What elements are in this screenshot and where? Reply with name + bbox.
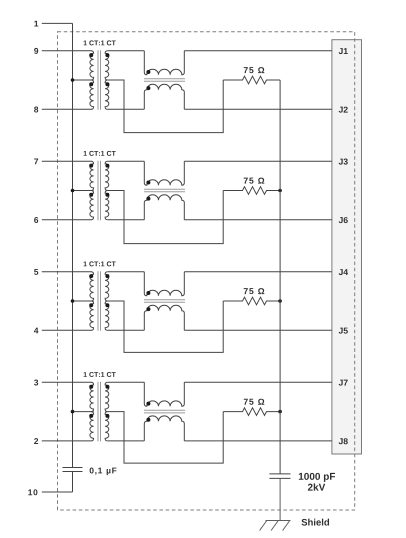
wire T2 secondary bottom to choke L2 bbox=[108, 219, 145, 221]
common-mode choke L3 top winding bbox=[144, 272, 184, 296]
transformer T2 secondary winding (coil a) bbox=[105, 161, 109, 190]
common-mode choke L2 core bbox=[144, 188, 185, 190]
pin J4 label bbox=[339, 269, 348, 275]
wire T4 primary centre tap to rail bbox=[73, 411, 94, 413]
junction: R4 on termination rail bbox=[278, 410, 282, 414]
transformer T4 primary winding (coil b) bbox=[90, 412, 94, 441]
transformer T1 secondary winding (coil b) bbox=[105, 80, 109, 109]
capacitor C2 1000 pF 2kV bbox=[269, 473, 290, 475]
transformer T1 label 1 CT:1 CT bbox=[84, 40, 116, 45]
resistor R4 75 ohm bbox=[223, 408, 280, 416]
wire choke L4 to J8 bbox=[184, 440, 332, 442]
transformer T1 core bbox=[97, 50, 99, 110]
transformer T4 phase dots bbox=[89, 385, 93, 389]
transformer T2 core bbox=[97, 161, 99, 221]
pin J6 label bbox=[339, 217, 348, 223]
wire T1 secondary bottom to choke L1 bbox=[108, 108, 145, 110]
choke L4 phase dots bbox=[146, 402, 150, 406]
wire choke L1 to J2 bbox=[184, 108, 332, 110]
transformer T3 secondary winding (coil b) bbox=[105, 301, 109, 330]
junction: T3 centre tap on rail bbox=[71, 299, 75, 303]
pin 3 label bbox=[34, 380, 38, 386]
shield boundary (dashed) bbox=[58, 32, 355, 510]
label 1000 pF bbox=[299, 473, 335, 482]
wire choke L3 to J4 bbox=[184, 271, 332, 273]
wire T3 secondary top to choke L3 bbox=[108, 271, 145, 273]
wire T2 secondary centre tap return to R2 bbox=[108, 191, 224, 244]
common-mode choke L4 bottom winding bbox=[144, 416, 184, 441]
pin 2 label bbox=[34, 438, 38, 444]
pin J7 label bbox=[339, 380, 348, 386]
chassis ground (shield) bbox=[266, 520, 291, 522]
wire T4 secondary top to choke L4 bbox=[108, 381, 145, 383]
wire T4 secondary bottom to choke L4 bbox=[108, 440, 145, 442]
pin 5 label bbox=[34, 269, 38, 275]
wire T1 secondary top to choke L1 bbox=[108, 50, 145, 52]
pin 9 label bbox=[34, 48, 38, 54]
pin J3 label bbox=[339, 159, 348, 165]
wire pin 5 to T3 primary top bbox=[42, 271, 92, 273]
wire choke L2 to J6 bbox=[184, 219, 332, 221]
wire pin 10 bbox=[42, 491, 73, 493]
label 75 ohm (R4) bbox=[244, 399, 265, 405]
transformer T3 secondary winding (coil a) bbox=[105, 272, 109, 301]
common-mode choke L1 top winding bbox=[144, 51, 184, 75]
wire T4 secondary centre tap return to R4 bbox=[108, 412, 224, 464]
wire pin 9 to T1 primary top bbox=[42, 50, 92, 52]
label 2kV bbox=[308, 483, 325, 490]
common-mode choke L4 top winding bbox=[144, 382, 184, 406]
junction: T2 centre tap on rail bbox=[71, 189, 75, 193]
wire T2 primary centre tap to rail bbox=[73, 190, 94, 192]
pin J2 label bbox=[339, 107, 348, 113]
transformer T4 label 1 CT:1 CT bbox=[84, 372, 116, 377]
transformer T2 secondary winding (coil b) bbox=[105, 191, 109, 220]
wire T3 secondary centre tap return to R3 bbox=[108, 301, 224, 352]
wire pin 8 to T1 primary bottom bbox=[42, 108, 92, 110]
connector box J1-J8 bbox=[332, 40, 362, 454]
resistor R3 75 ohm bbox=[223, 297, 280, 305]
pin J1 label bbox=[339, 48, 348, 54]
junction: T1 centre tap on rail bbox=[71, 78, 75, 82]
transformer T2 primary winding (coil a) bbox=[90, 161, 94, 190]
wire pin 1 bbox=[42, 22, 73, 24]
junction: R3 on termination rail bbox=[278, 299, 282, 303]
wire choke L1 to J1 bbox=[184, 50, 332, 52]
wire pin 6 to T2 primary bottom bbox=[42, 219, 92, 221]
transformer T3 primary winding (coil a) bbox=[90, 272, 94, 301]
transformer T2 phase dots bbox=[89, 164, 93, 168]
label 75 ohm (R2) bbox=[244, 178, 265, 184]
common-mode choke L1 bottom winding bbox=[144, 84, 184, 109]
wire T3 secondary bottom to choke L3 bbox=[108, 329, 145, 331]
label 75 ohm (R3) bbox=[244, 288, 265, 294]
transformer T4 core bbox=[97, 382, 99, 442]
junction: T4 centre tap on rail bbox=[71, 410, 75, 414]
common-mode choke L3 core bbox=[144, 299, 185, 301]
transformer T3 core bbox=[97, 271, 99, 331]
wire pin 4 to T3 primary bottom bbox=[42, 329, 92, 331]
pin 4 label bbox=[34, 328, 38, 334]
transformer T3 phase dots bbox=[89, 274, 93, 278]
resistor R1 75 ohm bbox=[223, 76, 280, 84]
choke L1 phase dots bbox=[146, 70, 150, 74]
label Shield bbox=[301, 519, 329, 526]
capacitor C1 0,1 uF bbox=[63, 467, 83, 469]
common-mode choke L1 core bbox=[144, 78, 185, 80]
centre-tap rail (pin1/pin10 net) bbox=[72, 23, 74, 467]
transformer T1 phase dots bbox=[89, 53, 93, 57]
wire pin 3 to T4 primary top bbox=[42, 381, 92, 383]
pin J5 label bbox=[339, 328, 348, 334]
label 0,1 uF bbox=[90, 468, 117, 476]
transformer T3 primary winding (coil b) bbox=[90, 301, 94, 330]
wire choke L2 to J3 bbox=[184, 160, 332, 162]
junction: R2 on termination rail bbox=[278, 189, 282, 193]
wire T1 primary centre tap to rail bbox=[73, 79, 94, 81]
transformer T1 primary winding (coil a) bbox=[90, 51, 94, 80]
pin 10 label bbox=[28, 489, 37, 495]
pin 7 label bbox=[34, 159, 38, 165]
choke L2 phase dots bbox=[146, 181, 150, 185]
common-mode choke L3 bottom winding bbox=[144, 305, 184, 330]
wire choke L3 to J5 bbox=[184, 329, 332, 331]
transformer T2 label 1 CT:1 CT bbox=[84, 151, 116, 156]
transformer T4 secondary winding (coil a) bbox=[105, 382, 109, 411]
transformer T1 secondary winding (coil a) bbox=[105, 51, 109, 80]
common-mode choke L2 bottom winding bbox=[144, 195, 184, 220]
choke L3 phase dots bbox=[146, 291, 150, 295]
common-mode choke L2 top winding bbox=[144, 161, 184, 185]
wire T3 primary centre tap to rail bbox=[73, 300, 94, 302]
common-mode choke L4 core bbox=[144, 409, 185, 411]
wire T2 secondary top to choke L2 bbox=[108, 160, 145, 162]
wire T1 secondary centre tap return to R1 bbox=[108, 80, 224, 133]
resistor R2 75 ohm bbox=[223, 187, 280, 195]
wire pin 7 to T2 primary top bbox=[42, 160, 92, 162]
wire choke L4 to J7 bbox=[184, 381, 332, 383]
pin 8 label bbox=[34, 107, 38, 113]
label 75 ohm (R1) bbox=[244, 67, 265, 73]
pin 6 label bbox=[34, 217, 38, 223]
transformer T3 label 1 CT:1 CT bbox=[84, 261, 116, 266]
termination rail to C2 bbox=[279, 80, 281, 474]
transformer T2 primary winding (coil b) bbox=[90, 191, 94, 220]
wire C2 to shield ground bbox=[279, 478, 281, 520]
transformer T1 primary winding (coil b) bbox=[90, 80, 94, 109]
transformer T4 primary winding (coil a) bbox=[90, 382, 94, 411]
pin 1 label bbox=[34, 21, 38, 27]
transformer T4 secondary winding (coil b) bbox=[105, 412, 109, 441]
pin J8 label bbox=[339, 438, 348, 444]
wire pin 2 to T4 primary bottom bbox=[42, 440, 92, 442]
